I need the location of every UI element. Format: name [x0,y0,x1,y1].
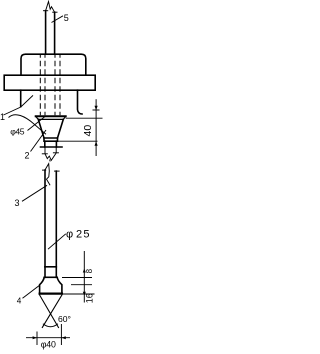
svg-text:16: 16 [84,293,94,303]
svg-text:40: 40 [82,125,94,137]
svg-text:φ45: φ45 [10,126,25,136]
svg-text:3: 3 [15,198,20,208]
svg-text:60°: 60° [58,314,71,324]
svg-text:25: 25 [76,229,91,241]
svg-text:1: 1 [0,112,5,122]
svg-text:8: 8 [85,268,94,273]
svg-text:φ: φ [66,229,73,241]
svg-text:5: 5 [64,13,69,23]
svg-text:4: 4 [17,296,22,305]
svg-text:φ40: φ40 [41,340,56,350]
svg-text:2: 2 [25,151,30,161]
